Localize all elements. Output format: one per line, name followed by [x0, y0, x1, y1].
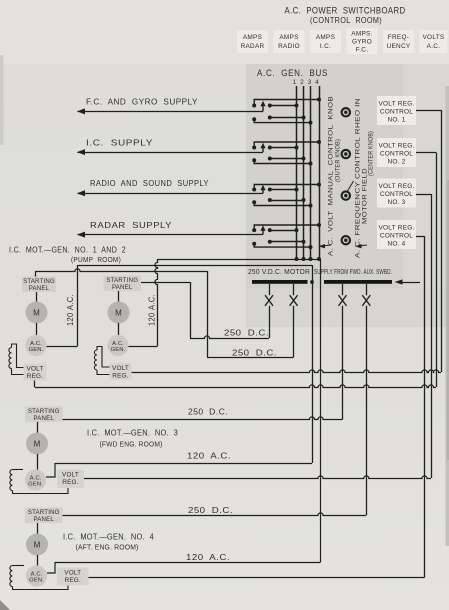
wire: gen1 feeder line y=265 to vertical x=312: [78, 265, 313, 267]
arrowhead supply: [77, 232, 85, 238]
svg-text:F.C.: F.C.: [356, 47, 369, 54]
switch S3 lower left contact line to bus 3: [254, 202, 310, 205]
wire: 120AC gen4 y=562: [55, 562, 321, 564]
svg-text:M: M: [34, 541, 41, 550]
wire: supply feeder at y=193.3: [78, 193, 264, 195]
svg-text:REG.: REG.: [27, 373, 43, 380]
wire: volt reg gen1 to control no.2, y=387: [35, 385, 436, 388]
wire: 250DC feed to starting panel 1, y=271: [36, 269, 208, 272]
bus line 4: [319, 86, 321, 259]
mini arrow left (center knob column): [359, 245, 368, 246]
wire: coil4 bottom link: [13, 586, 69, 590]
scan corner bottom-left: [0, 600, 10, 610]
wire: coil3 top link: [13, 469, 24, 471]
svg-text:CONTROL: CONTROL: [380, 191, 413, 198]
knob at y=112.3: [342, 108, 350, 116]
svg-text:A.C.: A.C.: [30, 341, 42, 347]
wire: motor to generator 4: [37, 555, 39, 566]
svg-text:(OUTER KNOB): (OUTER KNOB): [336, 139, 342, 182]
svg-text:I.C. MOT.—GEN. NO. 1 AND: I.C. MOT.—GEN. NO. 1 AND 2: [9, 245, 126, 255]
switch S1 lower left contact line to bus 3: [254, 119, 310, 122]
motor M4: [26, 534, 48, 556]
svg-text:A.C.: A.C.: [30, 476, 42, 482]
wire: control box NO. 1 lead: [416, 110, 441, 112]
fuse F2 (X symbol): [290, 295, 298, 306]
generator G2 (A.C. GEN.): [107, 335, 128, 356]
svg-text:AMPS: AMPS: [243, 34, 262, 41]
svg-text:SUPPLY FROM FWD. AUX. SWBD.: SUPPLY FROM FWD. AUX. SWBD.: [314, 267, 392, 276]
svg-text:M: M: [34, 440, 41, 449]
wire: fuse F3 lower stub: [342, 306, 344, 420]
wire: fuse F4 lower stub: [366, 306, 368, 515]
field coil (volt reg) 1: [9, 348, 12, 369]
volt reg box 4: [57, 568, 89, 586]
wire: fuse F1 lower stub: [269, 306, 271, 338]
svg-text:VOLT REG.: VOLT REG.: [379, 101, 415, 108]
bus line 1: [296, 86, 298, 259]
svg-text:NO. 4: NO. 4: [388, 241, 406, 248]
svg-text:120 A.C.: 120 A.C.: [148, 294, 157, 326]
svg-text:VOLT: VOLT: [64, 570, 81, 577]
switch S3 blade arrow (bent up): [262, 189, 264, 193]
svg-text:(FWD ENG. ROOM): (FWD ENG. ROOM): [100, 440, 163, 449]
svg-text:A. C. VOLT MANUAL CONTROL: A. C. VOLT MANUAL CONTROL KNOB: [328, 96, 335, 256]
wire: panel 2 to motor: [118, 291, 120, 302]
svg-text:VOLT: VOLT: [112, 365, 129, 372]
wire: supply feeder at y=234.6: [78, 234, 264, 236]
svg-text:RADIO AND SOUND SUPPLY: RADIO AND SOUND SUPPLY: [90, 178, 209, 188]
scan edge shading top-left: [0, 55, 4, 145]
svg-text:AMPS: AMPS: [279, 34, 298, 41]
wire: motor to generator 2: [118, 323, 120, 336]
svg-text:CONTROL: CONTROL: [380, 233, 413, 240]
wire: gen1 AC vertical x=77.5: [77, 265, 79, 346]
wire: 250DC feed panel2 y=282: [141, 282, 190, 284]
svg-text:MOTOR FIELD: MOTOR FIELD: [362, 168, 369, 224]
wire: gen2 to vertical: [128, 346, 158, 348]
svg-text:VOLT REG.: VOLT REG.: [379, 143, 415, 150]
motor M1: [26, 302, 48, 324]
wire: control box NO. 2 lead: [416, 152, 436, 154]
svg-text:PANEL: PANEL: [33, 415, 54, 422]
arrowhead supply: [77, 149, 85, 155]
wire: vertical x=207: [207, 271, 209, 357]
svg-text:A. C. FREQUENCY CONTROL RHEO I: A. C. FREQUENCY CONTROL RHEO IN: [355, 98, 362, 258]
svg-text:120 A.C.: 120 A.C.: [66, 294, 75, 326]
paper light top strip: [0, 0, 449, 64]
starting panel 2: [104, 276, 142, 292]
svg-text:I.C. MOT.—GEN. NO. 4: I.C. MOT.—GEN. NO. 4: [63, 533, 154, 542]
switch S2 upper right contact line to bus 1: [270, 147, 297, 149]
svg-text:250 D.C.: 250 D.C.: [188, 505, 233, 515]
wire: control box NO. 3 lead: [416, 194, 431, 196]
volt reg control box NO. 2: [377, 138, 416, 167]
arrowhead supply: [77, 190, 85, 196]
wire: volt reg control NO. 3 vertical drop: [431, 194, 433, 478]
field coil (volt reg) 4: [10, 566, 13, 587]
wire: y=357 run to fuse F2: [207, 357, 294, 359]
svg-text:(AFT. ENG. ROOM): (AFT. ENG. ROOM): [76, 543, 139, 552]
svg-text:GEN.: GEN.: [29, 578, 44, 584]
svg-text:(CENTER KNOB): (CENTER KNOB): [369, 131, 375, 176]
svg-text:(PUMP ROOM): (PUMP ROOM): [71, 255, 121, 264]
knob at y=195.6: [342, 191, 350, 199]
svg-text:3: 3: [308, 79, 312, 86]
knob at y=154.0: [342, 150, 350, 158]
meter box: FREQ- UENCY: [383, 30, 414, 53]
svg-text:CONTROL: CONTROL: [380, 109, 413, 116]
svg-text:GEN.: GEN.: [29, 347, 44, 353]
wire: volt reg control NO. 4 vertical drop: [424, 236, 426, 578]
wire: coil2 bottom link: [97, 370, 110, 375]
svg-text:AMPS.: AMPS.: [351, 31, 372, 38]
wire: panel1 top stub: [35, 271, 37, 277]
volt reg box 2: [110, 363, 132, 380]
switch S2 upper left contact line to bus 4: [254, 142, 319, 148]
svg-text:A.C. GEN. BUS: A.C. GEN. BUS: [257, 68, 328, 78]
svg-text:VOLT REG.: VOLT REG.: [379, 225, 415, 232]
svg-text:STARTING: STARTING: [106, 277, 138, 284]
scan edge shading right: [446, 86, 449, 546]
wire: coil1 top link: [12, 344, 24, 368]
lower bus-bar band background: [246, 288, 449, 327]
svg-text:I.C. MOT.—GEN. NO. 3: I.C. MOT.—GEN. NO. 3: [87, 429, 178, 438]
fuse F4 (X symbol): [362, 295, 370, 306]
svg-text:A.C.: A.C.: [112, 341, 124, 347]
right control-column background: [403, 64, 449, 288]
bus line 3: [310, 86, 312, 259]
svg-text:UENCY: UENCY: [387, 43, 411, 50]
svg-text:VOLTS: VOLTS: [423, 34, 445, 41]
svg-text:AMPS: AMPS: [316, 34, 335, 41]
svg-text:GEN.: GEN.: [111, 347, 126, 353]
svg-text:STARTING: STARTING: [28, 408, 60, 415]
wire: coil2 top link: [97, 347, 110, 368]
svg-text:RADAR: RADAR: [241, 43, 265, 50]
starting panel 3: [25, 407, 63, 423]
wire: volt reg control NO. 2 vertical drop: [436, 153, 438, 388]
wire: panel 4 to motor: [37, 523, 39, 534]
wire: fuse F2 upper stub: [293, 284, 295, 295]
svg-text:VOLT REG.: VOLT REG.: [379, 183, 415, 190]
svg-text:NO. 1: NO. 1: [388, 117, 406, 124]
wire: gen2 AC vertical x=157.5 with hops: [155, 259, 158, 346]
motor M2: [108, 302, 130, 324]
wire: fuse F4 upper stub: [366, 284, 368, 295]
svg-text:PANEL: PANEL: [112, 284, 133, 291]
wire: supply feeder at y=111.4: [78, 111, 264, 113]
switch S4 lower left contact line to bus 3: [254, 244, 310, 247]
switch S4 lower right contact line to bus 2: [270, 241, 304, 243]
svg-text:STARTING: STARTING: [23, 278, 55, 285]
wire: 120AC gen3 y=463: [55, 463, 312, 465]
switch S1 lower right contact line to bus 2: [270, 117, 304, 119]
volt reg box 3: [57, 470, 84, 489]
wire: motor to generator 3: [37, 454, 39, 470]
svg-text:REG.: REG.: [62, 479, 78, 486]
svg-text:250 D.C.: 250 D.C.: [224, 328, 269, 338]
wire: fuse F2 lower stub: [293, 306, 295, 357]
arrowhead supply: [77, 108, 85, 114]
wire: motor to generator 1: [36, 323, 38, 336]
bus bar left (250 VDC): [252, 280, 308, 284]
wire: 250DC to panel3, y=419.5: [63, 417, 343, 420]
switch S3 upper right contact line to bus 1: [270, 189, 297, 191]
wire: gen4 jog: [47, 562, 55, 573]
volt reg control box NO. 3: [377, 179, 416, 208]
knob at y=240.2: [342, 236, 350, 244]
bus bar right (250 VDC): [324, 280, 392, 284]
wire: volt reg gen2 to control no.1, y=372: [132, 370, 442, 373]
svg-text:120 A.C.: 120 A.C.: [186, 552, 230, 562]
svg-text:REG.: REG.: [112, 373, 128, 380]
mini arrow left (outer knob column): [322, 245, 331, 246]
svg-text:A.C.: A.C.: [427, 43, 441, 50]
svg-text:VOLT: VOLT: [26, 366, 43, 373]
wire: fuse F3 upper stub: [342, 284, 344, 295]
svg-text:NO. 2: NO. 2: [388, 159, 406, 166]
field coil (volt reg) 3: [10, 470, 13, 491]
fuse F3 (X symbol): [339, 295, 347, 306]
svg-text:STARTING: STARTING: [28, 509, 60, 516]
generator G4 (A.C. GEN.): [26, 565, 47, 586]
switch S2 blade arrow (bent up): [262, 147, 264, 152]
svg-text:REG.: REG.: [65, 577, 81, 584]
wire: volt reg control NO. 1 vertical drop: [441, 110, 443, 372]
svg-text:VOLT: VOLT: [62, 472, 79, 479]
svg-text:M: M: [33, 309, 40, 318]
svg-text:A.C.: A.C.: [31, 572, 43, 578]
svg-text:RADIO: RADIO: [278, 43, 300, 50]
generator G1 (A.C. GEN.): [25, 335, 46, 356]
svg-text:RADAR SUPPLY: RADAR SUPPLY: [90, 220, 172, 230]
volt reg box 1: [24, 364, 47, 381]
svg-text:I.C.: I.C.: [320, 43, 331, 50]
starting panel 4: [25, 508, 63, 524]
svg-text:250 D.C.: 250 D.C.: [232, 348, 277, 358]
fuse F1 (X symbol): [265, 295, 273, 306]
meter box: AMPS RADIO: [274, 30, 305, 53]
wire: fuse F1 upper stub: [269, 284, 271, 295]
wire: volt reg gen1 bottom jog: [34, 381, 36, 388]
svg-text:CONTROL: CONTROL: [380, 151, 413, 158]
switch S1 blade arrow (bent up): [262, 105, 264, 111]
field coil (volt reg) 2: [94, 350, 97, 370]
switch S3 upper left contact line to bus 4: [254, 185, 319, 190]
switch S1 upper right contact line to bus 1: [270, 105, 297, 107]
svg-text:M: M: [115, 309, 122, 318]
wire: vertical x=190: [190, 282, 192, 338]
wire: gen1 to vertical: [46, 346, 78, 348]
starting panel 1: [22, 277, 56, 293]
svg-text:GEN.: GEN.: [28, 482, 43, 488]
switch S4 upper left contact line to bus 4: [254, 225, 319, 230]
svg-text:120 A.C.: 120 A.C.: [187, 451, 231, 461]
svg-text:I.C. SUPPLY: I.C. SUPPLY: [86, 138, 153, 148]
wire: coil1 bottom link: [12, 369, 24, 375]
switch S2 lower left contact line to bus 3: [254, 160, 310, 163]
wire: vertical V312 (120AC to gen3): [312, 265, 314, 463]
wire: control box NO. 4 lead: [416, 236, 425, 238]
svg-text:GYRO: GYRO: [352, 39, 372, 46]
meter box: AMPS I.C.: [310, 30, 341, 53]
wire: coil4 top link: [13, 565, 25, 567]
meter box: AMPS RADAR: [237, 30, 268, 53]
switch S4 blade arrow (bent up): [262, 230, 264, 235]
svg-text:250 D.C.: 250 D.C.: [188, 407, 228, 417]
svg-text:1: 1: [293, 79, 297, 86]
wire: bus collector line y=259: [158, 259, 321, 261]
wire: vertical V320 (120AC to gen4): [320, 259, 322, 562]
wire: supply feeder at y=152.1: [78, 152, 264, 154]
meter box: AMPS. GYRO F.C.: [347, 28, 378, 54]
svg-text:PANEL: PANEL: [33, 516, 54, 523]
wire: volt reg gen4 to control no.4, y=577.5: [89, 577, 425, 579]
wire: y=338 run to fuse F1: [190, 336, 269, 339]
bus line 2: [303, 86, 305, 259]
svg-text:FREQ-: FREQ-: [388, 34, 409, 41]
volt reg control box NO. 4: [377, 220, 416, 249]
wire: panel 1 to motor: [36, 292, 38, 302]
svg-text:250 V.D.C. MOTOR: 250 V.D.C. MOTOR: [248, 267, 310, 276]
wire: 250DC to panel4, y=515: [63, 513, 367, 516]
motor M3: [26, 433, 48, 455]
wire: gen3 jog: [46, 463, 55, 477]
svg-text:NO. 3: NO. 3: [388, 199, 406, 206]
switch S2 lower right contact line to bus 2: [270, 158, 304, 160]
supply arrow from fwd aux swbd: [398, 282, 420, 284]
svg-text:2: 2: [300, 79, 304, 86]
svg-text:4: 4: [315, 79, 319, 86]
knob pointer line: [348, 181, 354, 191]
svg-text:(CONTROL ROOM): (CONTROL ROOM): [310, 15, 382, 25]
switch S1 upper left contact line to bus 4: [254, 100, 319, 106]
meter box: VOLTS A.C.: [420, 30, 448, 53]
volt reg control box NO. 1: [377, 96, 416, 125]
generator G3 (A.C. GEN.): [25, 469, 46, 490]
wire: coil3 bottom link: [13, 488, 69, 494]
svg-text:PANEL: PANEL: [29, 285, 50, 292]
switchboard panel background: [246, 64, 403, 288]
junction dot on V312 at bar level: [310, 280, 314, 284]
switch S3 lower right contact line to bus 2: [270, 200, 304, 202]
wire: volt reg gen3 to control no.3, y=478: [84, 476, 431, 479]
svg-text:F.C. AND GYRO SUPPLY: F.C. AND GYRO SUPPLY: [86, 97, 198, 107]
wire: panel 3 to motor: [37, 422, 39, 433]
switch S4 upper right contact line to bus 1: [270, 230, 297, 232]
